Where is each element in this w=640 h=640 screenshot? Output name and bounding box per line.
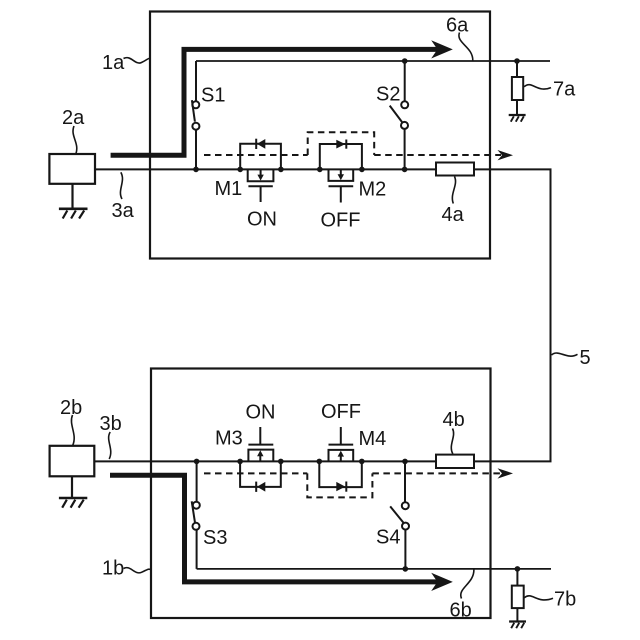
wire 6a: thin output line top (196, 60, 550, 62)
transistor M1 channel (248, 169, 274, 181)
node: M3 right (278, 459, 284, 465)
switch S3 (192, 461, 200, 569)
leader line for 3a (120, 172, 122, 199)
svg-text:S2: S2 (376, 84, 400, 106)
ground (under 7b) (509, 622, 526, 629)
wire 6b: thin output line bottom (197, 568, 551, 570)
dashed detour around M2 (308, 132, 375, 155)
switch S2 (390, 61, 409, 169)
transistor M4 body-diode loop (319, 461, 362, 487)
resistor 4b (436, 455, 474, 468)
M4 gate (329, 444, 354, 446)
transistor M2 channel (329, 169, 354, 181)
leader line for 4b (451, 429, 453, 454)
transistor M2 body-diode loop (320, 144, 362, 169)
switch S4 (390, 461, 409, 569)
svg-text:M2: M2 (359, 179, 387, 201)
node: M3 left (237, 459, 243, 465)
svg-text:6a: 6a (446, 15, 469, 37)
node: M4 left (317, 459, 323, 465)
svg-text:OFF: OFF (321, 210, 361, 232)
leader line for 6b (461, 570, 474, 599)
leader line for 1b (124, 568, 151, 573)
node: M4 right (359, 459, 365, 465)
resistor 7b (512, 569, 524, 622)
leader line for 1a (124, 58, 151, 63)
svg-text:1a: 1a (102, 52, 125, 74)
dashed inactive path (bottom block) (204, 472, 307, 474)
svg-text:3b: 3b (100, 413, 122, 435)
ground (under 2b) (59, 476, 87, 507)
node: S1 to rail (193, 167, 199, 173)
M1 body arrow (260, 169, 262, 175)
dashed path arrowhead (bottom output) (498, 468, 514, 478)
svg-text:2a: 2a (62, 107, 85, 129)
node: M1 right (278, 167, 284, 173)
node: S4 to rail (402, 459, 408, 465)
node: S3 to rail (194, 459, 200, 465)
leader line for 2a (73, 126, 77, 154)
M3 gate (248, 444, 273, 446)
block 1b boundary box (151, 369, 491, 619)
resistor 7a (512, 61, 523, 115)
thick emphasized signal path (top block, to 6a) (111, 49, 439, 155)
svg-text:OFF: OFF (321, 401, 361, 423)
svg-text:5: 5 (580, 347, 591, 369)
diode of M3 (pointing left) (255, 482, 257, 492)
node: 7a tap on 6a line (514, 58, 520, 64)
svg-text:M4: M4 (359, 428, 387, 450)
node: S2 to 6a line (402, 58, 408, 64)
leader line for 5 (552, 353, 578, 356)
svg-text:S4: S4 (376, 527, 400, 549)
leader line for 7b (524, 596, 553, 600)
signal source 2b (50, 446, 95, 477)
svg-text:3a: 3a (112, 200, 135, 222)
svg-text:S1: S1 (201, 85, 225, 107)
node: M2 left (317, 167, 323, 173)
M4 body arrow (340, 456, 342, 462)
svg-text:4a: 4a (442, 204, 465, 226)
leader line for 7a (524, 85, 551, 89)
thick emphasized signal path (bottom block, to 6b) (110, 475, 439, 582)
block 1a boundary box (150, 12, 490, 259)
resistor 4a (436, 163, 474, 176)
M3 body arrow (259, 455, 261, 461)
thick arrowhead 6a (431, 40, 453, 58)
node: S2 to rail (402, 167, 408, 173)
svg-text:4b: 4b (443, 409, 465, 431)
leader line for 2b (71, 415, 74, 445)
leader line for 4a (452, 177, 455, 204)
dashed inactive path (top block) (204, 154, 308, 156)
ground (under 2a) (59, 184, 88, 219)
M1 gate (248, 185, 272, 187)
transistor M3 channel (248, 450, 273, 462)
node: S4 to 6b line (403, 566, 409, 572)
svg-text:1b: 1b (102, 558, 124, 580)
thick arrowhead 6b (431, 573, 453, 591)
svg-text:ON: ON (246, 402, 276, 424)
leader line for 6a (459, 33, 473, 61)
dashed path arrowhead (top output) (498, 150, 514, 160)
wire 3a: main rail from 2a through block 1a to node, down as wire 5, into bottom rail 3b (94, 169, 550, 461)
svg-text:ON: ON (247, 209, 277, 231)
transistor M3 body-diode loop (240, 461, 281, 487)
switch S1 (192, 61, 200, 169)
svg-text:7a: 7a (553, 79, 576, 101)
transistor M4 channel (329, 450, 354, 462)
M2 gate (329, 185, 354, 187)
node: M2 right (359, 167, 365, 173)
dashed detour around M4 (307, 473, 372, 497)
ground (under 7a) (509, 115, 526, 122)
diode of M4 (pointing right) (336, 482, 345, 491)
svg-text:7b: 7b (554, 589, 576, 611)
diode of M1 (pointing left) (255, 139, 257, 149)
signal source 2a (49, 154, 95, 184)
svg-text:6b: 6b (450, 600, 472, 622)
M2 body arrow (340, 169, 342, 175)
transistor M1 body-diode loop (240, 144, 281, 170)
svg-text:S3: S3 (203, 527, 227, 549)
svg-text:M3: M3 (215, 428, 243, 450)
diode of M2 (pointing right) (336, 140, 345, 149)
node: 7b tap on 6b line (515, 566, 521, 572)
svg-text:2b: 2b (60, 397, 82, 419)
leader line for 3b (109, 432, 111, 459)
node: M1 left (237, 167, 243, 173)
svg-text:M1: M1 (215, 178, 243, 200)
